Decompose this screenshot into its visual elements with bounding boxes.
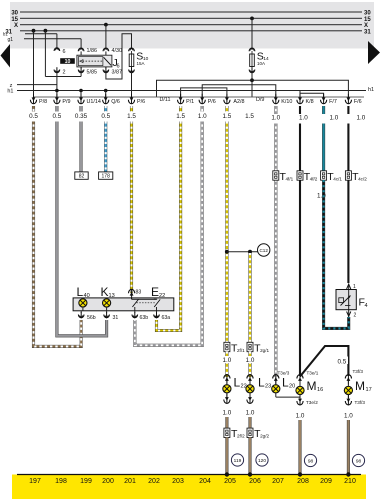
svg-text:200: 200 (102, 478, 114, 485)
svg-text:2: 2 (354, 313, 357, 319)
svg-text:P/6: P/6 (137, 99, 145, 105)
wire 3/87 down right up to fuse S10 (106, 34, 132, 79)
wire pin2 down through z,h1 to P/9 (56, 72, 58, 97)
svg-text:1.0: 1.0 (296, 413, 305, 420)
svg-text:208: 208 (297, 478, 309, 485)
wire T2g/1 to L23 yellow (248, 352, 251, 378)
svg-text:15: 15 (364, 17, 371, 23)
svg-text:209: 209 (320, 478, 332, 485)
wire F/6 black to T4c/2 (347, 106, 349, 171)
node: 31 bus dot second (44, 29, 48, 33)
svg-text:202: 202 (148, 478, 160, 485)
svg-text:98: 98 (356, 459, 362, 465)
svg-text:P/8: P/8 (39, 99, 47, 105)
wire 31 bus down to P/8 (33, 31, 35, 97)
svg-text:K: K (101, 285, 109, 299)
wire P/1 yellow loop to 63a (157, 106, 181, 331)
rail z (17, 84, 57, 86)
svg-text:T3e/3: T3e/3 (278, 371, 290, 376)
connector T4c/2 (345, 171, 351, 180)
svg-text:2f/1: 2f/1 (237, 348, 245, 353)
svg-text:16: 16 (317, 387, 323, 393)
svg-text:1.0: 1.0 (246, 410, 255, 417)
relay J6 (77, 55, 112, 67)
svg-text:1.0: 1.0 (223, 357, 232, 364)
svg-text:g1: g1 (8, 37, 14, 43)
bus X (20, 24, 362, 26)
right arrow triangle (368, 41, 380, 64)
connector F/7 (321, 94, 327, 104)
relay position label 10 (60, 58, 75, 64)
svg-text:83: 83 (136, 290, 142, 296)
svg-text:1.0: 1.0 (198, 113, 207, 120)
lamp L20 (273, 374, 279, 384)
svg-text:P/6: P/6 (208, 99, 216, 105)
svg-text:205: 205 (224, 478, 236, 485)
pin 1 of F4 (348, 284, 350, 310)
line L3 y87.9 P/1 to A2/8 (181, 88, 227, 97)
bus 31 (20, 30, 362, 32)
svg-text:1.0: 1.0 (271, 115, 280, 122)
ground circle 98 right (352, 454, 364, 466)
bridge K/8 to F/7 (300, 91, 324, 97)
svg-text:0.5: 0.5 (53, 113, 62, 120)
lamp L23 (247, 374, 253, 384)
connector F/6 (345, 94, 351, 104)
svg-text:98: 98 (308, 459, 314, 465)
connector P/9 (54, 94, 60, 104)
connector A2/8 (224, 94, 230, 104)
svg-text:K/8: K/8 (306, 99, 314, 105)
svg-text:b1: b1 (3, 32, 8, 37)
svg-text:2g/2: 2g/2 (260, 434, 269, 439)
svg-text:K/10: K/10 (281, 99, 292, 105)
connector T4f/1 (273, 171, 279, 180)
svg-text:1.5: 1.5 (176, 113, 185, 120)
svg-text:M: M (355, 379, 365, 393)
svg-text:P/9: P/9 (62, 99, 70, 105)
svg-text:210: 210 (344, 478, 356, 485)
svg-text:1.0: 1.0 (223, 410, 232, 417)
svg-text:120: 120 (258, 458, 266, 464)
svg-text:h1: h1 (368, 87, 374, 93)
svg-text:0.5: 0.5 (29, 113, 38, 120)
svg-text:T3e/2: T3e/2 (306, 400, 318, 405)
svg-text:D/11: D/11 (160, 97, 171, 103)
relay switch contact (104, 57, 111, 65)
svg-text:1.0: 1.0 (357, 114, 366, 121)
svg-text:1.0: 1.0 (344, 413, 353, 420)
wire U1/14 grey to 82 (79, 106, 82, 172)
svg-text:E: E (151, 285, 159, 299)
svg-text:82: 82 (79, 174, 85, 180)
svg-text:17: 17 (366, 387, 372, 393)
wire P/6b white/grey loop to 63b (135, 106, 202, 345)
lamp L22 (224, 374, 230, 384)
svg-text:23: 23 (265, 384, 271, 390)
connector P/6 right (199, 94, 205, 104)
svg-text:D/9: D/9 (256, 97, 264, 103)
lamp M17 (345, 374, 351, 384)
svg-text:30: 30 (364, 11, 371, 17)
wire K/10 white/grey down to L20 (274, 106, 277, 377)
svg-text:L: L (234, 376, 241, 390)
node h1 dot U1/14 (79, 89, 83, 93)
fuse S10 (129, 48, 135, 51)
ground dots (225, 472, 229, 476)
svg-text:199: 199 (80, 478, 92, 485)
thin separation line y97 (33, 96, 364, 98)
relay plate grey background (10, 2, 374, 49)
svg-text:197: 197 (29, 478, 41, 485)
svg-text:T3f/3: T3f/3 (355, 400, 366, 405)
wire P/8 brown/white loop to 56b (34, 106, 82, 346)
wire M16 ground brown (298, 420, 301, 474)
wire 31 bus down to horiz y76.5 (44, 31, 46, 77)
svg-text:10: 10 (65, 59, 71, 65)
svg-text:1: 1 (353, 284, 356, 290)
ground circle 119 (231, 454, 243, 466)
node: 31 bus dot for P/8 (32, 29, 36, 33)
connector T2g/1 (247, 342, 253, 351)
svg-text:20: 20 (289, 384, 295, 390)
wire D/9 tick down (251, 80, 253, 97)
bus 30 (20, 11, 362, 13)
svg-text:204: 204 (199, 478, 211, 485)
rail g1 (24, 38, 81, 40)
connector T2f/1 (224, 342, 230, 351)
wire g1 corner down to 1/86 (80, 39, 82, 48)
svg-text:0.35: 0.35 (75, 113, 88, 120)
svg-text:4: 4 (365, 303, 368, 309)
connector T4c/1 (321, 171, 327, 180)
svg-text:1.5: 1.5 (223, 113, 232, 120)
bus 15 (20, 17, 362, 19)
wire K/8 black down to M16 (299, 106, 301, 376)
connector K/10 (273, 94, 279, 104)
pin 6 of relay socket (54, 48, 60, 51)
pin 2 of F4 (348, 310, 350, 317)
lamp L40 (82, 298, 84, 300)
svg-text:22: 22 (159, 293, 165, 299)
line L1 y80.3 from D/11 to F/6 (157, 80, 349, 97)
svg-text:h1: h1 (7, 89, 13, 95)
svg-text:206: 206 (249, 478, 261, 485)
wire P/6 yellow to 83 (130, 106, 133, 293)
C12 circle (258, 244, 270, 256)
connector Q/6 (103, 94, 109, 104)
pin 2 of relay socket (54, 67, 60, 73)
wire S14 down to L1 (251, 72, 253, 81)
svg-text:4/30: 4/30 (112, 48, 123, 54)
wire b1 corner down to pin 6 (56, 34, 58, 48)
pin 56b (80, 311, 82, 313)
ground circle 120 (256, 454, 268, 466)
wire F/7 black/teal striped from T4c/1 down right up to F4 pin2 (324, 180, 349, 328)
svg-text:1.0: 1.0 (246, 357, 255, 364)
wire horizontal y76.5 connecting 31, pin2, 5/85 (45, 76, 81, 78)
svg-text:15: 15 (11, 17, 18, 23)
switch F4 (336, 290, 356, 310)
fuse S14 (250, 17, 254, 21)
svg-text:4c/2: 4c/2 (358, 177, 367, 182)
connector K/8 (297, 94, 303, 104)
connector P/6 left (128, 94, 134, 104)
pin T3e/2 under M16 (299, 394, 301, 398)
left arrow triangle (1, 44, 11, 68)
pin 63b (134, 311, 136, 313)
svg-text:T3e/1: T3e/1 (307, 371, 319, 376)
node C12 junction dots (225, 250, 229, 254)
ground circle 98 (304, 454, 316, 466)
svg-text:3/87: 3/87 (112, 70, 123, 76)
connector P/8 (30, 94, 36, 104)
svg-text:1.0: 1.0 (330, 114, 339, 121)
svg-text:10A: 10A (257, 61, 265, 66)
svg-text:1/86: 1/86 (87, 48, 98, 54)
svg-text:15A: 15A (137, 61, 145, 66)
pin 1/86 (78, 48, 84, 51)
svg-text:0.5: 0.5 (338, 359, 347, 366)
svg-text:4c/1: 4c/1 (333, 177, 342, 182)
pin 63a (156, 311, 158, 313)
svg-text:31: 31 (364, 29, 371, 35)
svg-text:203: 203 (172, 478, 184, 485)
svg-text:63a: 63a (162, 315, 171, 321)
svg-text:178: 178 (102, 174, 111, 180)
svg-text:31: 31 (113, 315, 119, 321)
svg-text:30: 30 (11, 11, 18, 17)
wire h1 down to Q/6 (105, 91, 107, 97)
wire F/6 black from T4c/2 down to F4 pin1 (347, 180, 349, 283)
wire fuse down to P/6 (131, 72, 133, 97)
svg-text:C12: C12 (259, 248, 268, 253)
pin 31 (106, 311, 108, 313)
svg-text:L: L (258, 376, 265, 390)
node h1 dot P/9 (55, 89, 59, 93)
svg-text:1.5: 1.5 (245, 113, 254, 120)
svg-text:F/6: F/6 (354, 99, 362, 105)
svg-text:X: X (14, 23, 18, 29)
svg-text:40: 40 (84, 293, 90, 299)
pin 3/87 (105, 67, 107, 69)
svg-text:T3f/3: T3f/3 (353, 369, 364, 374)
svg-text:U1/14: U1/14 (87, 99, 101, 105)
svg-text:0.5: 0.5 (101, 113, 110, 120)
svg-text:119: 119 (234, 458, 242, 464)
pins under L22 L23 (226, 392, 228, 396)
wire L22 ground brown (225, 417, 228, 428)
pin 4/30 (103, 48, 109, 51)
svg-text:207: 207 (272, 478, 284, 485)
line L2 y84.8 P/6b to K/10 (202, 85, 276, 97)
svg-text:4f/1: 4f/1 (286, 177, 294, 182)
svg-text:M: M (307, 379, 317, 393)
connector U1/14 (78, 94, 84, 104)
svg-text:2f/2: 2f/2 (237, 434, 245, 439)
svg-text:Q/6: Q/6 (111, 99, 120, 105)
svg-text:1.5: 1.5 (127, 113, 136, 120)
wire h1 down to U1/14 (80, 91, 82, 97)
svg-text:6: 6 (63, 49, 66, 55)
wire P/9 grey loop to 31 (57, 106, 107, 336)
svg-text:1.0: 1.0 (299, 114, 308, 121)
svg-text:L: L (282, 376, 289, 390)
pin under M17 (347, 394, 349, 398)
pin 5/85 (80, 67, 82, 69)
wire A2/8 yellow down to T2f/1 (225, 106, 228, 342)
lamp M16 (297, 374, 303, 384)
svg-text:56b: 56b (87, 315, 96, 321)
wire X bus dot down to 4/30 (104, 23, 108, 27)
wire C12 branch yellow down to T2g/1 (248, 253, 251, 342)
switch E22 contacts (132, 299, 138, 307)
node h1 dot Q/6 (104, 89, 108, 93)
wire end 178 (99, 172, 113, 179)
svg-text:5/85: 5/85 (87, 70, 98, 76)
svg-text:201: 201 (124, 478, 136, 485)
svg-text:P/1: P/1 (186, 99, 194, 105)
connector T2f/2 (224, 428, 230, 437)
rail h1 (17, 90, 366, 92)
wire F/7 teal to T4c/1 (322, 106, 325, 171)
rail b1 (25, 33, 57, 35)
node L1 dot at S14/D9 (250, 78, 254, 82)
svg-text:2g/1: 2g/1 (260, 348, 269, 353)
wire link M16 to M17 black 0.5 (300, 346, 348, 377)
svg-text:198: 198 (55, 478, 67, 485)
wire T2f/1 to L22 yellow (225, 352, 228, 378)
wire L20 bottom link to M16 (275, 392, 277, 397)
wire M17 ground brown (347, 420, 350, 474)
svg-text:F/7: F/7 (329, 99, 337, 105)
svg-text:L: L (77, 285, 84, 299)
wire end 82 (75, 172, 88, 179)
connector T4f/2 (297, 171, 303, 180)
svg-text:4f/2: 4f/2 (310, 177, 318, 182)
svg-text:2: 2 (63, 70, 66, 76)
connector T2g/2 (247, 428, 253, 437)
connector P/1 (178, 94, 184, 104)
lamp K13 (106, 298, 108, 300)
svg-text:A2/8: A2/8 (233, 99, 244, 105)
svg-text:63b: 63b (140, 315, 149, 321)
svg-text:X: X (364, 23, 368, 29)
wire Q/6 blue/white to 178 (104, 106, 107, 172)
pin 83 top (129, 289, 135, 299)
wire L23 ground brown (248, 417, 251, 428)
svg-text:13: 13 (109, 293, 115, 299)
